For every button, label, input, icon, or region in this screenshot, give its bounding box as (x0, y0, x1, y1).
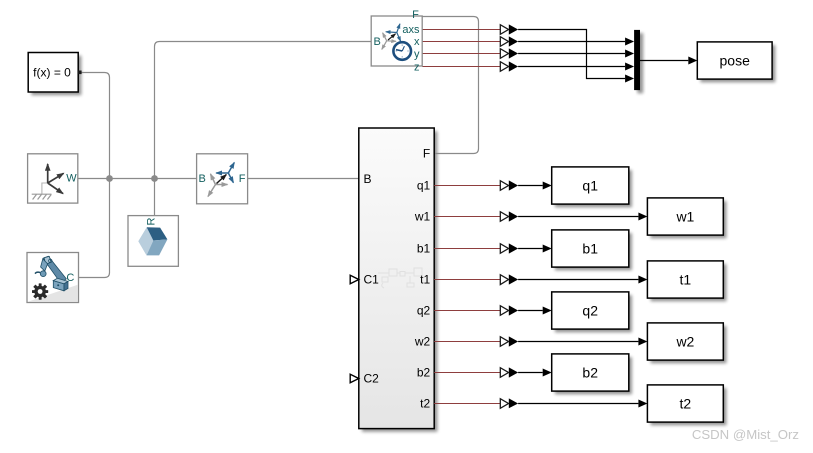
PS wire: subsystem q1 output (434, 185, 500, 187)
svg-text:b2: b2 (417, 366, 431, 380)
PS wire: subsystem t1 output (434, 279, 500, 281)
signal wire: converter to b2 outport (518, 372, 543, 374)
PS-Simulink converter on x row (500, 36, 518, 46)
signal wire: y to mux input 2 (518, 53, 625, 55)
PS wire: subsystem q2 output (434, 310, 500, 312)
sensor gray triad (383, 33, 387, 41)
outport block t1 (647, 261, 723, 298)
svg-text:B: B (374, 36, 381, 48)
mux block (634, 30, 640, 90)
svg-text:C: C (66, 272, 74, 284)
PS-Simulink converter on q2 row (500, 305, 518, 315)
wire: rigid transform F to subsystem B (248, 178, 359, 180)
shadow: b1 outport block (555, 233, 632, 270)
svg-text:t2: t2 (420, 397, 430, 411)
PS-Simulink converter on t1 row (500, 274, 518, 284)
PS wire: sensor z output (422, 66, 500, 68)
svg-text:t1: t1 (680, 272, 692, 288)
shadow: solver f(x)=0 block (31, 56, 81, 95)
wire: branch up to transform sensor B and down to brick solid R (155, 42, 372, 216)
signal wire: x to mux input 1 (518, 41, 625, 43)
signal wire: converter to b1 outport (518, 248, 543, 250)
sensor clock (393, 42, 411, 60)
svg-text:b1: b1 (417, 242, 431, 256)
shadow: w1 outport block (651, 201, 727, 238)
svg-text:b1: b1 (582, 240, 598, 256)
svg-text:w1: w1 (675, 208, 694, 224)
svg-text:W: W (66, 172, 77, 184)
signal wire: axs to mux input 4 (jog down) (518, 30, 625, 79)
base bolt (57, 284, 59, 286)
sensor black arrow (388, 34, 396, 40)
svg-text:z: z (414, 62, 420, 74)
svg-text:R: R (145, 217, 157, 225)
floor polygon (28, 285, 78, 302)
signal wire: converter to w2 outport (518, 341, 638, 343)
svg-text:y: y (414, 48, 420, 60)
outport block w1 (647, 198, 723, 235)
cube front face (147, 239, 168, 255)
shadow: q1 outport block (555, 170, 632, 207)
gear (32, 283, 48, 299)
PS-Simulink converter on t2 row (500, 398, 518, 408)
svg-text:x: x (414, 36, 420, 48)
PS-Simulink converter on z row (500, 61, 518, 71)
svg-text:C2: C2 (364, 372, 380, 386)
svg-text:C1: C1 (364, 273, 380, 287)
svg-text:axs: axs (402, 24, 420, 36)
svg-text:w2: w2 (675, 333, 694, 349)
PS wire: sensor y output (422, 53, 500, 55)
signal wire: converter to w1 outport (518, 216, 638, 218)
svg-text:CSDN @Mist_Orz: CSDN @Mist_Orz (692, 427, 799, 442)
world frame ground hatching (32, 194, 52, 199)
shadow: mux block (637, 33, 643, 93)
PS wire: subsystem w2 output (434, 341, 500, 343)
PS-Simulink converter on y row (500, 48, 518, 58)
signal wire: mux to pose outport (640, 60, 688, 62)
shadow: subsystem block (362, 131, 437, 432)
svg-text:q2: q2 (417, 304, 431, 318)
shadow: b2 outport block (555, 357, 632, 394)
svg-text:t2: t2 (680, 395, 692, 411)
signal wire: converter to t2 outport (518, 403, 638, 405)
outport block q2 (552, 292, 629, 329)
shadow: pose outport block (701, 45, 776, 82)
shadow: t1 outport block (651, 264, 727, 301)
signal wire: z to mux input 3 (518, 66, 625, 68)
svg-text:F: F (412, 9, 419, 21)
PS wire: subsystem w1 output (434, 216, 500, 218)
transform sensor block (371, 9, 422, 74)
PS-Simulink converter on b2 row (500, 367, 518, 377)
shadow: w2 outport block (651, 326, 727, 363)
PS wire: sensor axs output (422, 29, 500, 31)
wire: transform sensor F to subsystem F (420, 17, 479, 154)
svg-text:t1: t1 (420, 273, 430, 287)
subsystem input port triangle C2 (350, 374, 359, 382)
outport block t2 (647, 385, 723, 422)
svg-text:w2: w2 (414, 335, 431, 349)
PS wire: sensor x output (422, 41, 500, 43)
svg-text:pose: pose (720, 52, 751, 68)
signal wire: converter to q2 outport (518, 310, 543, 312)
solver configuration block f(x)=0 (28, 53, 81, 93)
subsystem input port triangle C1 (350, 275, 359, 283)
mechanism configuration block (27, 253, 79, 303)
outport block b2 (552, 354, 629, 391)
PS-Simulink converter on w2 row (500, 336, 518, 346)
gripper ball (40, 271, 46, 277)
world frame block W (28, 154, 78, 203)
cube left face (138, 227, 153, 255)
robot arm base box (53, 281, 64, 291)
junction node at solver vertical and W wire (106, 175, 113, 182)
svg-text:q1: q1 (582, 177, 598, 193)
subsystem content preview (faint) (378, 268, 422, 288)
brick solid block (128, 216, 178, 267)
rigid transform block (197, 154, 248, 204)
svg-text:F: F (423, 147, 430, 161)
pose outport block (697, 42, 772, 79)
junction node at sensor/brick vertical and W wire (151, 175, 158, 182)
wire: solver f(x)=0 output down to mechanism configuration C (79, 73, 110, 278)
subsystem block (350, 128, 434, 429)
robot arm main beam (41, 256, 68, 291)
svg-text:w1: w1 (414, 210, 431, 224)
PS-Simulink converter on w1 row (500, 211, 518, 221)
PS-Simulink converter on q1 row (500, 180, 518, 190)
world frame triad axes (47, 164, 49, 183)
cube top face (147, 227, 168, 240)
blue triad (228, 163, 234, 174)
svg-text:q2: q2 (582, 302, 598, 318)
svg-text:f(x) = 0: f(x) = 0 (33, 66, 71, 80)
svg-text:B: B (364, 172, 372, 186)
svg-text:B: B (199, 173, 206, 185)
world frame ground bracket (42, 183, 48, 194)
shadow: t2 outport block (651, 388, 727, 425)
outport block w2 (647, 323, 723, 360)
sensor blue triad (397, 24, 400, 33)
signal wire: converter to t1 outport (518, 279, 638, 281)
svg-text:F: F (239, 173, 246, 185)
signal wire: converter to q1 outport (518, 185, 543, 187)
svg-text:b2: b2 (582, 364, 598, 380)
PS-Simulink converter on axs row (500, 24, 518, 34)
wire: world frame W to rigid transform B (78, 178, 197, 180)
robot arm forearm (41, 259, 48, 271)
PS wire: subsystem t2 output (434, 403, 500, 405)
PS-Simulink converter on b1 row (500, 243, 518, 253)
PS wire: subsystem b2 output (434, 372, 500, 374)
gripper hook (35, 272, 40, 273)
svg-text:q1: q1 (417, 179, 431, 193)
outport block b1 (552, 230, 629, 267)
shadow: q2 outport block (555, 295, 632, 332)
black arrow between triads (217, 175, 227, 184)
outport block q1 (552, 167, 629, 204)
shoulder joint circle (49, 259, 52, 262)
PS wire: subsystem b1 output (434, 248, 500, 250)
gray triad (211, 174, 216, 185)
